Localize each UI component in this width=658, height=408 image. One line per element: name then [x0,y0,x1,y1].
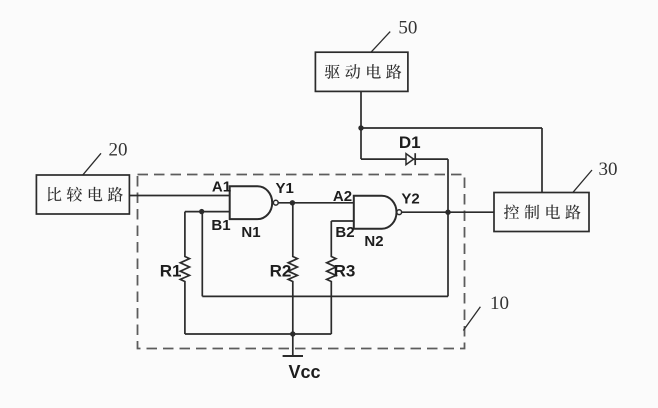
wire: vertical from D1/Y2 node down to feedback rail [447,159,449,296]
wire: bottom rail R1 to R3 [185,333,331,335]
svg-text:20: 20 [109,139,128,160]
wire: B2 input horizontal [331,220,354,222]
svg-text:Y2: Y2 [401,190,419,207]
pointer line to label 10 [463,307,480,331]
svg-text:Y1: Y1 [276,180,294,197]
node junction dot below drive box [358,125,363,130]
wire: D1 anode line [361,158,448,160]
svg-text:A1: A1 [212,178,231,195]
wire: drive box down to D1 branch [360,91,362,159]
node junction dot on B1 wire [199,209,204,214]
resistor R1 [180,212,189,334]
block: control circuit (控制电路) box 30 [494,193,589,232]
svg-text:10: 10 [490,293,509,314]
wire: lower feedback rail [202,295,448,297]
wire: N2 output Y2 to control box [402,211,494,213]
node junction dot on Y2 wire [445,210,450,215]
resistor R3 hanging from B2 wire [327,221,336,334]
block: drive circuit (驱动电路) box 50 [315,52,408,91]
svg-text:A2: A2 [333,188,352,205]
svg-text:Vcc: Vcc [288,362,320,382]
wire: N1 output Y1 to N2 input A2 [278,202,354,204]
block: comparison circuit (比较电路) box 20 [36,175,129,214]
node junction dot on Y1 wire [290,200,295,205]
svg-text:N1: N1 [241,224,260,241]
wire: from B1 junction down to lower rail [201,212,203,297]
NAND gate N2 inversion bubble [397,210,402,215]
pointer line to label 50 [371,32,390,53]
resistor R2 with feed from Y1 junction down to Vcc [288,203,297,356]
pointer line to label 30 [573,170,592,192]
NAND gate N1 inversion bubble [273,200,278,205]
wire: junction across to control box feed [361,127,542,129]
wire: B1 input horizontal [185,211,230,213]
diode D1 cathode bar [414,153,416,165]
svg-text:N2: N2 [364,233,383,250]
svg-text:R1: R1 [160,261,182,280]
svg-text:30: 30 [599,159,618,180]
Vcc terminal bar [283,355,303,357]
pointer line to label 20 [83,153,102,175]
svg-text:R3: R3 [334,261,356,280]
node junction dot on bottom rail at Vcc stem [290,331,295,336]
dashed enclosure box 10 [138,175,465,349]
NAND gate N2 body [354,196,397,229]
svg-text:50: 50 [398,17,417,38]
NAND gate N1 body [230,186,273,219]
diode D1 triangle [406,154,414,165]
svg-text:R2: R2 [270,261,292,280]
svg-text:B2: B2 [335,224,354,241]
wire: comparison box output to N1 input A1 [129,195,229,197]
svg-text:D1: D1 [399,133,421,152]
svg-text:B1: B1 [211,217,230,234]
wire: vertical down into control box top [541,128,543,193]
